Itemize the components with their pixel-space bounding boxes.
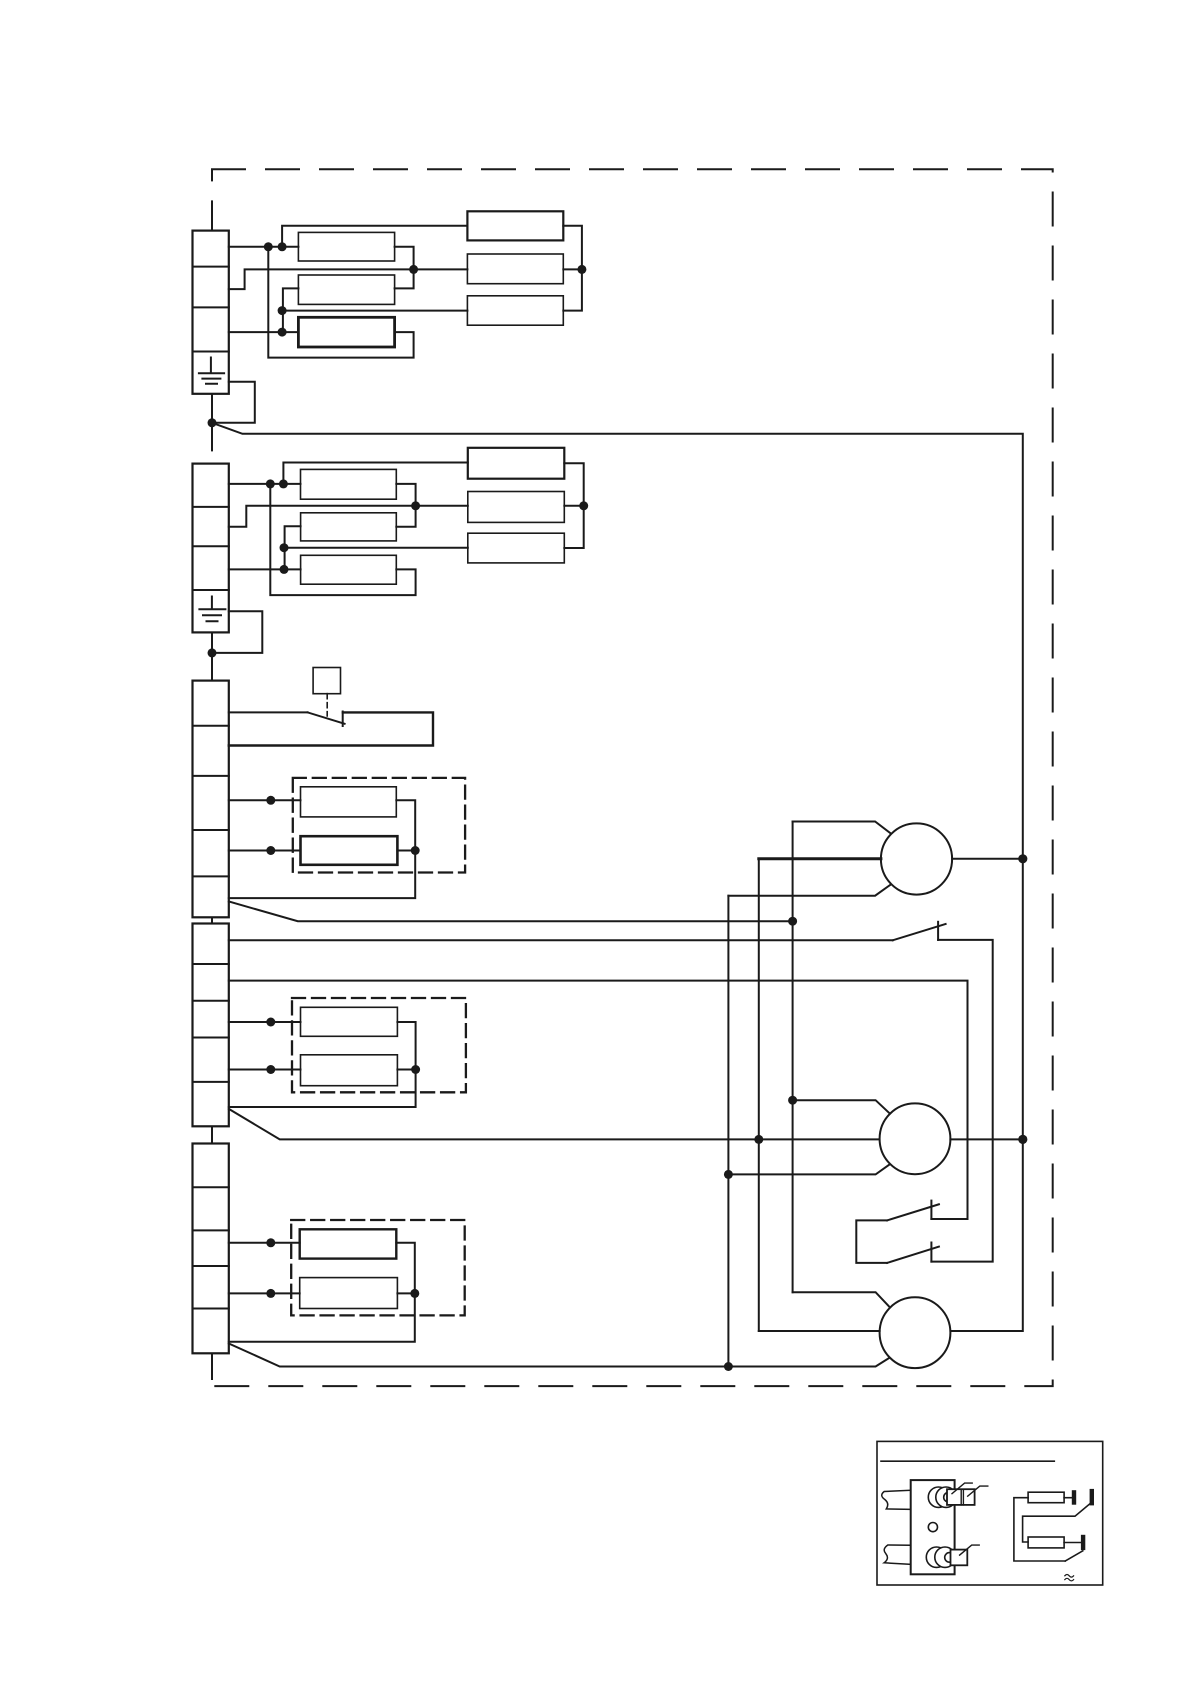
wire TB1.3 to heater R3 [229,331,299,333]
switch S1 contact post [342,712,344,727]
inset detail box [877,1441,1103,1585]
junction node [410,1289,419,1298]
ground symbol in TB1 [199,358,224,384]
wire TB3.3 to heater R7 [229,799,301,801]
junction node [266,1065,275,1074]
wire riser to top lamp row [283,463,467,484]
upper spade connector [947,1489,975,1505]
indicator element L2 [467,254,563,284]
junction node [266,796,275,805]
junction node [724,1170,733,1179]
junction node [280,565,289,574]
wire to bottom lamp row [284,547,468,549]
wire R4 right to R5 right [396,484,415,527]
junction node [278,242,287,251]
wire riser to top lamp row [282,226,467,247]
junction node [754,1135,763,1144]
contact blade link [1065,1551,1083,1561]
lower wire cable [884,1545,911,1564]
wire R1 right to R2 right [395,247,414,289]
thermal fuse F2 [1028,1537,1064,1548]
wire TB1 ground detour [212,382,255,423]
heater element R7 [301,787,397,817]
wire TB3.5 long run to motor column [229,902,793,922]
grill element dashed box [292,998,466,1092]
wire R12 right [397,1292,414,1294]
wire R3 wrap-around return [268,247,413,358]
upper wire cable [882,1490,911,1509]
wire TB4.2 long run to upper contact K1 [229,981,968,1219]
heater element R5 [301,513,397,541]
wire TB2 ground detour [212,611,262,653]
junction node [577,265,586,274]
heater element R10 [301,1055,398,1086]
indicator element L6 [468,533,565,563]
wire neutral run to right bus [212,423,1023,1331]
oven element dashed box [293,778,465,873]
junction node ground [208,648,217,657]
junction node ground [208,418,217,427]
heater element R9 [301,1007,398,1036]
wire to bottom lamp row [282,310,467,312]
junction node [266,479,275,488]
heater element R4 [301,469,397,499]
wire R5 left drop [285,526,301,569]
junction node [724,1362,733,1371]
leader line [968,1486,988,1496]
wire L1-L3 right bus [563,226,582,311]
actuator dashed link [326,694,328,716]
wire TB3.4 to heater R8 [229,850,301,852]
contact K2 post [930,1243,932,1262]
wire L4-L6 right bus [564,463,583,548]
indicator element L1 [467,211,563,240]
wire: left border stem below TB1 [211,394,213,446]
heater element R6 [301,555,397,584]
junction node [411,846,420,855]
wire: left border stem TB4 to TB5 [211,1126,213,1143]
switch S1 blade [308,712,345,723]
junction node [579,501,588,510]
wire R2 left drop [283,288,299,332]
heater element R2 [298,275,394,304]
junction node [279,479,288,488]
appliance enclosure dashed border [212,169,1053,1386]
wire TB1.1 to heater R1 [229,246,299,248]
contact plate [1072,1490,1076,1505]
wire TB4.1 long run to switch S2 [229,939,893,941]
wire S2 out to lower contact K2 [931,940,992,1262]
wire TB4.5 long run to motor M2 [229,1109,880,1140]
indicator element L5 [468,492,565,523]
junction node [278,306,287,315]
wire TB5.3 to heater R11 [229,1242,300,1244]
cutout schematic loop [1014,1498,1065,1561]
leader line [952,1483,972,1494]
vertical wire motor mid feeds [758,859,760,1331]
heater element R12 [300,1278,398,1309]
motor M1 [881,823,952,894]
thermal cutout body plate [911,1480,955,1574]
lower terminal barrel [926,1547,946,1567]
terminal block TB2 [193,464,229,633]
junction node bus [1018,1135,1027,1144]
inset title underline [881,1460,1054,1462]
wire M1 mid terminal [759,857,881,860]
wire L2 right [563,268,582,270]
wire [1064,1542,1081,1544]
wire: left border stem below TB5 [211,1353,213,1379]
heater element R11 [300,1229,397,1258]
junction node [280,543,289,552]
wire TB3.1 to switch S1 [229,711,308,713]
junction node [411,501,420,510]
wire TB5.5 long run to motor M3 [229,1344,890,1367]
contact plate [1081,1535,1085,1550]
wire [1064,1497,1072,1499]
switch S2 contact post [937,922,939,940]
motor M3 [880,1297,951,1368]
terminal block TB1 [193,231,229,394]
ground symbol in TB2 [199,597,225,622]
squiggle mark [1065,1575,1074,1581]
switch S2 blade [893,924,946,940]
wire M1 top terminal [793,822,891,834]
contact K1 post [930,1201,932,1219]
contact pair bracket [856,1220,887,1263]
wire: left border stem TB3 to TB4 [211,917,213,923]
wire R9 right return to TB4.5 [229,1022,416,1107]
thermal fuse F1 [1028,1492,1064,1503]
junction node [788,917,797,926]
junction node [278,328,287,337]
vertical wire motor bottom feeds [727,896,729,1367]
fixing hole [928,1523,937,1532]
heater element R1 [298,232,394,261]
junction node [266,1018,275,1027]
junction node bus [1018,854,1027,863]
wire M3 top terminal [793,1292,890,1307]
junction node [266,846,275,855]
contact K2 blade [887,1247,939,1263]
heater element R8 [301,836,398,865]
wire M2 top terminal [793,1100,890,1113]
wire M2 right to bus [950,1138,1022,1140]
wire R6 wrap-around return [270,484,415,595]
wire R7 right return to TB3.5 [229,800,415,898]
contact K1 blade [887,1204,939,1220]
junction node [266,1289,275,1298]
junction node [411,1065,420,1074]
junction node [788,1096,797,1105]
thermostat actuator box [313,668,340,694]
vertical wire motor top feeds [792,822,794,1293]
indicator element L3 [467,296,563,325]
terminal block TB5 [193,1144,229,1354]
junction node [264,242,273,251]
wire TB4.3 to heater R9 [229,1021,301,1023]
contact blade link [1023,1503,1091,1542]
wire M1 right to bus [952,858,1023,860]
heater element R3 [298,317,394,347]
terminal block TB4 [193,924,229,1127]
wire TB2.3 to heater R6 [229,568,301,570]
wire TB2.1 to heater R4 [229,483,301,485]
leader line [960,1545,980,1555]
wire R10 right [397,1069,415,1071]
terminal block TB3 [193,681,229,918]
contact plate [1090,1489,1094,1506]
wire R11 right return to TB5.5 [229,1243,415,1342]
upper terminal barrel [928,1487,948,1507]
indicator element L4 [468,448,565,479]
wire: left border stem TB2 to TB3 [211,632,213,680]
wire TB2.2 zig to middle row [229,506,468,527]
motor M2 [880,1103,951,1174]
wire L5 right [564,505,583,507]
switch S1 frame loop [229,712,433,745]
wire TB1.2 zig to middle row [229,269,468,289]
warmer element dashed box [291,1220,465,1315]
wire TB4.4 to heater R10 [229,1069,301,1071]
wire R8 right [397,850,415,852]
wire M2 bottom terminal [728,1164,890,1174]
junction node [409,265,418,274]
junction node [266,1238,275,1247]
lower spade connector [951,1550,968,1566]
wire TB5.4 to heater R12 [229,1292,300,1294]
wire M1 bottom terminal [728,885,890,896]
wire M3 mid terminal [759,1330,880,1332]
